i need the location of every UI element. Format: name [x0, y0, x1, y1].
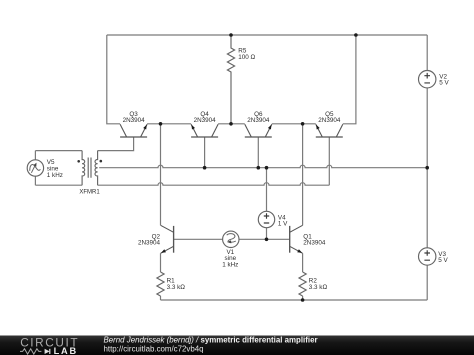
wire V2 bottom to V3 top	[426, 88, 428, 248]
svg-text:5 V: 5 V	[438, 257, 448, 264]
label V4 value	[278, 214, 288, 227]
resistor R2	[299, 272, 306, 296]
transistor Q3	[120, 124, 147, 137]
transistor Q6	[245, 124, 272, 137]
svg-text:2N3904: 2N3904	[318, 117, 341, 124]
wire top rail	[107, 34, 427, 36]
footer bar	[0, 336, 474, 355]
svg-text:2N3904: 2N3904	[303, 239, 326, 246]
svg-text:2N3904: 2N3904	[247, 117, 270, 124]
junction node A (Q3/Q4 emitters)	[159, 122, 163, 126]
transistor Q4	[191, 124, 218, 137]
svg-text:1 V: 1 V	[278, 221, 288, 228]
svg-text:http://circuitlab.com/c72vb4q: http://circuitlab.com/c72vb4q	[104, 345, 204, 354]
wire Q3 base to transformer secondary top	[98, 137, 134, 151]
svg-text:2N3904: 2N3904	[194, 117, 217, 124]
wire V1 to V4 node to Q1 base	[239, 238, 290, 240]
junction node B (Q6/Q5 emitters)	[301, 122, 305, 126]
wire bottom rail	[161, 299, 428, 301]
source V4	[258, 211, 274, 227]
wire V3 bottom to bottom rail	[426, 265, 428, 300]
label V2 value	[439, 73, 449, 86]
svg-text:100 Ω: 100 Ω	[238, 54, 255, 61]
svg-text:5 V: 5 V	[439, 79, 449, 86]
junction node bus1 / Q4 base	[203, 166, 207, 170]
transformer XFMR1	[82, 151, 98, 186]
wire R1 bottom to bottom rail	[160, 296, 162, 300]
wire V4 bottom to base row	[266, 228, 268, 240]
wire node A column (Q3/Q4 emitters down to Q2 collector)	[160, 124, 162, 226]
transistor Q1	[290, 225, 303, 253]
wire node B column (Q6/Q5 emitters down to Q1 collector)	[302, 124, 304, 226]
junction node top rail / R5	[229, 33, 233, 37]
svg-text:3.3 kΩ: 3.3 kΩ	[167, 284, 186, 291]
wire bus 2 (XFMR1 secondary bottom to Q5 base, hops at 160.5, 266.5, 302.6)	[98, 183, 330, 185]
wire Q5 base down to bus 2	[328, 137, 330, 185]
wire V2/V3 right column	[426, 35, 428, 71]
wire Q5 collector riser to top rail	[343, 35, 356, 124]
junction node V4 bottom / base row	[265, 238, 269, 242]
label R5 value	[238, 47, 255, 61]
label Q6	[247, 111, 270, 124]
svg-text:1 kHz: 1 kHz	[47, 172, 63, 179]
wire Q6 base down to bus 1	[257, 137, 259, 168]
label XFMR1	[79, 189, 100, 195]
svg-text:3.3 kΩ: 3.3 kΩ	[309, 284, 328, 291]
svg-text:2N3904: 2N3904	[138, 239, 161, 246]
label V3 value	[438, 251, 448, 264]
junction node bus1 / V2-V3 column	[425, 166, 429, 170]
wire Q4 base down to bus 1	[204, 137, 206, 168]
resistor R5	[227, 35, 234, 124]
wire Q6 emitter to Q5 emitter (node B row)	[272, 123, 316, 125]
logo diode symbol	[45, 349, 50, 354]
label V1 value	[222, 249, 238, 269]
wire Q4 collector to Q6 collector (R5 node)	[218, 123, 245, 125]
svg-text:1 kHz: 1 kHz	[222, 261, 238, 268]
source V5	[27, 160, 43, 176]
wire V5 top to transformer primary top	[35, 151, 82, 160]
junction node bus1 / V4	[265, 166, 269, 170]
wire V4 top to bus 1	[266, 168, 268, 212]
transistor Q5	[316, 124, 343, 137]
source V3	[419, 248, 436, 265]
junction node top rail / Q5 collector	[354, 33, 358, 37]
label V5 value	[47, 159, 63, 179]
XFMR1 phase dot left	[77, 160, 80, 163]
label Q3	[123, 111, 146, 124]
label R1 value	[167, 277, 186, 291]
wire left rail	[107, 35, 120, 124]
svg-text:LAB: LAB	[54, 346, 78, 355]
resistor R1	[157, 272, 164, 296]
label Q4	[194, 111, 217, 124]
svg-text:Bernd Jendrissek (berndj) / sy: Bernd Jendrissek (berndj) / symmetric di…	[104, 336, 318, 345]
label Q2	[138, 234, 161, 247]
logo resistor zigzag	[20, 349, 41, 354]
transistor Q2	[161, 225, 174, 253]
XFMR1 phase dot right	[100, 160, 103, 163]
wire Q3 emitter to Q4 emitter (node A row)	[147, 123, 191, 125]
wire V5 bottom to transformer primary bottom	[35, 176, 82, 185]
junction node R2 / bottom rail	[301, 298, 305, 302]
junction node bus1 / Q6 base	[257, 166, 261, 170]
wire Q2 emitter to R1	[160, 253, 162, 272]
wire Q1 emitter to R2	[302, 253, 304, 272]
label R2 value	[309, 277, 328, 291]
source V1	[223, 231, 239, 247]
wire bus 1 (XFMR1 center tap to V2/V3 column, hops at 160.5, 302.6, 329.3)	[99, 165, 427, 167]
wire R2 bottom to bottom rail	[302, 296, 304, 300]
label Q5	[318, 111, 341, 124]
svg-text:2N3904: 2N3904	[123, 117, 146, 124]
svg-text:XFMR1: XFMR1	[79, 189, 100, 195]
label Q1	[303, 234, 326, 247]
junction node R5 bottom	[229, 122, 233, 126]
source V2	[419, 71, 436, 88]
wire Q2 base to V1	[174, 238, 223, 240]
